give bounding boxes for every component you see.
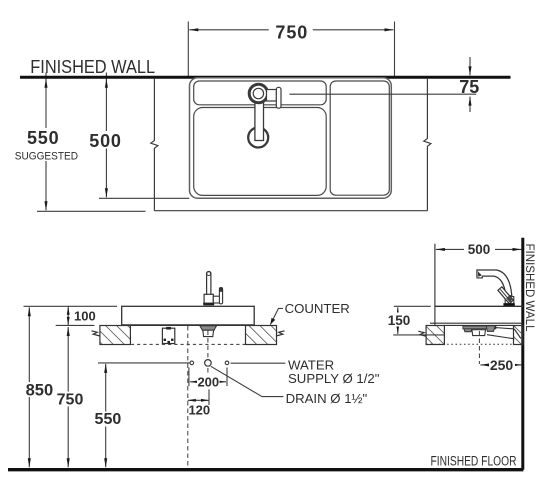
svg-text:500: 500 <box>89 131 121 151</box>
valve box corner dots <box>164 339 166 341</box>
drain flange (front section) <box>200 326 217 330</box>
faucet (front section): spout pipe <box>207 272 211 296</box>
sink underside line across cut-out <box>130 324 245 326</box>
sink underside line (side view) <box>444 324 513 326</box>
extension line at counter top level <box>56 324 95 326</box>
dimension 75: upper arrow line <box>469 57 471 75</box>
sink body (front section) <box>122 306 255 325</box>
faucet spout outlet ring (plan) <box>248 128 268 148</box>
faucet deck strip (plan) <box>194 81 327 105</box>
dimension 500: text <box>87 131 126 149</box>
break mark on right edge of counter <box>276 331 285 336</box>
dimension 150: dimension line with arrows <box>397 307 399 334</box>
finished floor line (thick) <box>8 468 523 471</box>
hidden counter bottom (dashed) <box>131 343 245 345</box>
dimension 550: text <box>23 128 64 161</box>
extension line at sink rim level <box>24 305 118 307</box>
dimension 850: dimension line with arrows <box>28 307 30 467</box>
counter cut edge bar (side view) <box>495 328 515 329</box>
dimension 750: extension line right <box>394 22 396 77</box>
dimension 120: dimension line with arrows <box>188 399 209 401</box>
dimension 750: text <box>269 23 313 40</box>
faucet handle end cap (plan) <box>276 87 281 108</box>
svg-text:250: 250 <box>490 357 514 373</box>
faucet handle link <box>213 296 219 303</box>
svg-text:FINISHED WALL: FINISHED WALL <box>523 244 537 332</box>
drain slope line (side view) <box>487 335 514 339</box>
svg-text:100: 100 <box>74 308 96 323</box>
counter hatched block left (front section) <box>100 326 130 345</box>
svg-text:200: 200 <box>197 374 219 389</box>
faucet base <box>204 294 213 304</box>
extension line at supply level <box>98 362 190 364</box>
break mark on left edge of counter (side view) <box>418 331 426 336</box>
svg-text:120: 120 <box>188 402 210 417</box>
dimension 850: text <box>24 382 55 397</box>
centre line of drain (dashed) <box>207 331 209 384</box>
svg-text:FINISHED WALL: FINISHED WALL <box>30 57 155 77</box>
finished wall line (vertical, thick) <box>521 238 524 470</box>
dimension 200: left extension <box>188 368 190 387</box>
sink top line (side view) <box>435 305 523 307</box>
dimension 550: bottom extension line <box>37 210 146 212</box>
leader to WATER SUPPLY text <box>231 362 286 364</box>
faucet base inner circle (plan) <box>253 88 263 98</box>
centre line of sink (dashed) <box>187 326 189 468</box>
dimension 75: lower arrow line <box>469 97 471 112</box>
valve box bottom tick <box>167 341 170 344</box>
svg-text:550: 550 <box>27 128 59 148</box>
dimension 120: right extension <box>208 389 210 405</box>
dimension 750: text <box>55 392 85 407</box>
supply point left <box>190 361 194 365</box>
counter cut slope right (side view) <box>514 329 521 339</box>
hidden counter bottom dotted (side view) <box>426 343 513 345</box>
label COUNTER leader <box>270 308 283 324</box>
dimension 500: left extension / sink front line <box>434 244 436 326</box>
faucet valve body (side view) <box>505 297 514 304</box>
dimension 250: text <box>489 358 515 372</box>
drain flange left piece (side view) <box>463 326 473 332</box>
faucet base dark foot <box>203 303 214 306</box>
dimension 550: text <box>93 412 123 427</box>
counter hatched block left (side view) <box>426 326 444 345</box>
svg-text:FINISHED FLOOR: FINISHED FLOOR <box>431 453 517 468</box>
dimension 550: dimension line with arrows <box>105 364 107 467</box>
dimension 750: dimension line with arrows <box>189 29 393 31</box>
svg-text:SUGGESTED: SUGGESTED <box>15 151 78 163</box>
leader to DRAIN text <box>211 366 284 396</box>
dimension 200: right extension <box>226 368 228 387</box>
faucet handle (side view) <box>498 287 513 304</box>
dimension 500: bottom extension line <box>99 197 189 199</box>
dimension 200: text <box>197 375 220 388</box>
counter hatched block right (front section) <box>246 326 277 345</box>
faucet handle inner line <box>500 289 511 302</box>
dimension 500: text <box>464 242 495 257</box>
faucet spout tip <box>477 270 482 278</box>
faucet handle bar <box>219 288 222 304</box>
drain flange bar (side view) <box>463 326 496 329</box>
svg-text:750: 750 <box>275 23 308 43</box>
supply point right <box>225 361 229 365</box>
drain centre line (side view, dashed) <box>478 331 480 364</box>
drain cup (side view) <box>472 330 486 336</box>
dimension 750: extension line left <box>187 22 189 77</box>
drain right piece (side view) <box>486 326 495 332</box>
svg-text:DRAIN Ø 1½": DRAIN Ø 1½" <box>286 391 368 406</box>
drain point <box>205 360 212 367</box>
sink bottom line (side view) <box>430 322 523 324</box>
dimension 500: extension overshoot above wall <box>105 73 107 81</box>
finished wall line (thick) <box>20 76 511 79</box>
svg-text:750: 750 <box>57 391 84 408</box>
faucet base circle (plan) <box>249 84 267 102</box>
dimension 150: bottom extension <box>393 334 445 336</box>
main bowl (plan) <box>194 108 327 196</box>
faucet spout bar (plan) <box>255 96 264 141</box>
dimension 250: dimension line with arrows <box>480 364 521 366</box>
counter break line left (plan) <box>151 78 158 211</box>
dimension 550: dimension line with arrows <box>45 79 47 211</box>
counter hatched block right at wall (side view) <box>514 326 523 345</box>
dimension 550: extension overshoot above wall <box>45 73 47 81</box>
svg-text:500: 500 <box>468 242 491 257</box>
dimension 750: dimension line with arrows <box>67 327 69 467</box>
svg-text:850: 850 <box>26 382 54 400</box>
dimension 200: dimension line with arrows <box>190 381 226 383</box>
faucet handle dark grip <box>506 296 512 303</box>
faucet top circle <box>207 272 211 276</box>
leader line from faucet centre to 75 dimension <box>289 93 476 95</box>
dimension 500: dimension line with arrows <box>105 79 107 198</box>
sink outer rim (plan) <box>190 78 392 198</box>
dimension 100: dimension line with arrows <box>67 306 69 325</box>
counter front edge (plan) <box>154 210 427 212</box>
valve box top tick <box>166 327 171 330</box>
svg-text:COUNTER: COUNTER <box>285 301 350 316</box>
svg-text:SUPPLY Ø 1/2": SUPPLY Ø 1/2" <box>288 371 380 386</box>
dimension 150: top extension <box>394 305 431 307</box>
faucet handle dark tip <box>219 287 222 292</box>
dimension 500: dimension line with arrows <box>436 248 522 250</box>
svg-text:550: 550 <box>95 411 122 428</box>
supply valve box under sink <box>162 328 174 343</box>
label COUNTER leader arrowhead <box>270 318 275 325</box>
svg-text:75: 75 <box>459 77 479 97</box>
dimension 150: text <box>388 313 412 327</box>
drain cup (front section) <box>203 330 214 336</box>
break mark on left edge of counter <box>92 331 101 336</box>
faucet handle body (plan) <box>267 90 277 102</box>
faucet (side view): spout curve <box>477 270 512 296</box>
counter break line right (plan) <box>424 78 431 211</box>
svg-text:150: 150 <box>388 313 411 328</box>
faucet base (side view) <box>503 303 514 306</box>
drainboard (plan) <box>330 81 389 195</box>
